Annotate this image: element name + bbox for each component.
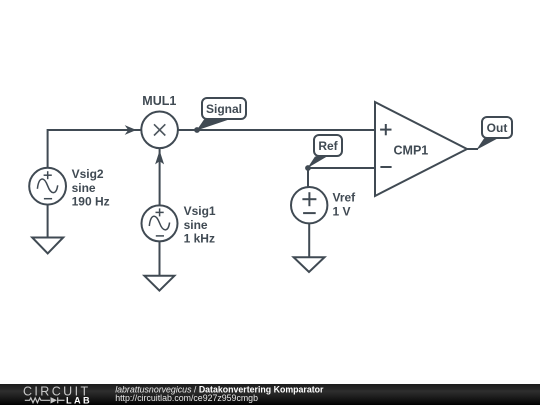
svg-text:Ref: Ref [318,139,338,153]
svg-text:190 Hz: 190 Hz [72,195,110,209]
svg-text:Signal: Signal [206,102,242,116]
svg-text:Vsig2: Vsig2 [72,167,104,181]
svg-text:Vsig1: Vsig1 [184,204,216,218]
svg-text:MUL1: MUL1 [142,94,176,108]
svg-text:CMP1: CMP1 [394,144,429,158]
svg-text:1 V: 1 V [333,205,351,219]
svg-text:http://circuitlab.com/ce927z95: http://circuitlab.com/ce927z959cmgb [115,393,258,403]
svg-text:Out: Out [487,121,508,135]
svg-text:sine: sine [184,218,208,232]
svg-text:LAB: LAB [66,395,92,405]
svg-text:sine: sine [72,181,96,195]
svg-text:1 kHz: 1 kHz [184,232,215,246]
svg-text:Vref: Vref [333,191,357,205]
